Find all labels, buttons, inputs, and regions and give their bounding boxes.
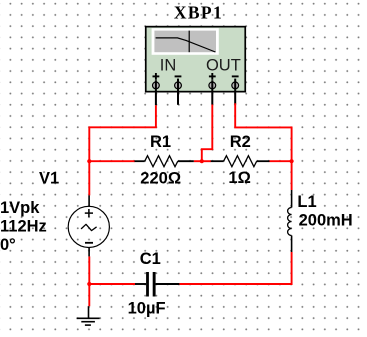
wire R2 right lead to node C xyxy=(270,160,292,162)
XBP1 terminal IN- xyxy=(175,82,182,89)
resistor R2 xyxy=(211,156,270,167)
XBP1 OUT+ polarity mark xyxy=(209,73,216,80)
node C junction dot xyxy=(290,159,294,163)
XBP1 terminal OUT- xyxy=(232,82,239,89)
XBP1 OUT+ pin lead xyxy=(211,80,213,104)
source V1 reference label xyxy=(39,170,59,188)
wire R1 right lead to node B xyxy=(194,160,202,162)
resistor R1 xyxy=(135,156,194,167)
wire OUT+ to node B xyxy=(202,105,213,162)
svg-text:112Hz: 112Hz xyxy=(0,217,47,235)
svg-text:OUT: OUT xyxy=(206,56,241,74)
XBP1 IN+ polarity mark xyxy=(153,73,160,80)
source V1 value label 112Hz xyxy=(0,217,47,235)
wire V1 bottom through node D to ground xyxy=(88,256,90,306)
source V1 value label 0deg xyxy=(0,236,16,254)
XBP1 OUT- polarity mark xyxy=(232,75,239,77)
wire node A to R1 left lead xyxy=(89,160,135,162)
source V1 value label 1Vpk xyxy=(0,199,40,217)
svg-text:200mH: 200mH xyxy=(299,211,353,229)
XBP1 IN label xyxy=(160,56,177,74)
svg-text:XBP1: XBP1 xyxy=(174,3,223,23)
wire node A to V1 top xyxy=(88,161,90,195)
svg-text:1Ω: 1Ω xyxy=(228,169,250,187)
XBP1 OUT label xyxy=(206,56,241,74)
node D junction dot xyxy=(87,282,91,286)
resistor R1 value label 220ohm xyxy=(140,169,181,187)
inductor L1 reference label xyxy=(297,193,316,211)
XBP1 OUT- pin lead xyxy=(234,79,236,105)
svg-text:1Vpk: 1Vpk xyxy=(0,199,40,217)
wire L1 bottom to C1 right lead xyxy=(179,252,291,284)
node B junction dot xyxy=(200,159,204,163)
XBP1 IN+ pin lead xyxy=(155,80,157,105)
svg-text:10µF: 10µF xyxy=(128,300,166,318)
XBP1 terminal OUT+ xyxy=(209,82,216,89)
svg-text:V1: V1 xyxy=(39,170,59,188)
node A junction dot xyxy=(87,159,91,163)
svg-text:C1: C1 xyxy=(140,250,161,268)
wire node C to L1 top xyxy=(291,161,293,190)
capacitor C1 value label 10uF xyxy=(128,300,166,318)
capacitor C1 xyxy=(135,272,179,297)
capacitor C1 reference label xyxy=(140,250,161,268)
XBP1 terminal IN+ xyxy=(153,82,160,89)
bode plotter XBP1 body xyxy=(146,27,246,92)
wire IN+ to node A xyxy=(89,105,156,161)
inductor L1 xyxy=(288,190,292,252)
inductor L1 value label 200mH xyxy=(299,211,353,229)
wire node B to R2 left lead xyxy=(202,160,211,162)
wire C1 left lead to node D xyxy=(89,283,135,285)
XBP1 screen xyxy=(152,28,219,55)
XBP1 IN- polarity mark xyxy=(175,75,182,77)
resistor R1 reference label xyxy=(150,133,171,151)
bode plotter XBP1 label xyxy=(174,3,223,23)
ground xyxy=(77,306,100,325)
AC source V1 xyxy=(68,195,109,256)
svg-text:L1: L1 xyxy=(297,193,316,211)
resistor R2 value label 1ohm xyxy=(228,169,250,187)
resistor R2 reference label xyxy=(230,133,251,151)
svg-text:R1: R1 xyxy=(150,133,171,151)
wire OUT- to node C xyxy=(235,103,291,161)
svg-text:R2: R2 xyxy=(230,133,251,151)
svg-text:IN: IN xyxy=(160,56,177,74)
XBP1 IN- pin lead (unconnected stub) xyxy=(177,79,179,105)
svg-text:0°: 0° xyxy=(0,236,16,254)
svg-text:220Ω: 220Ω xyxy=(140,169,181,187)
